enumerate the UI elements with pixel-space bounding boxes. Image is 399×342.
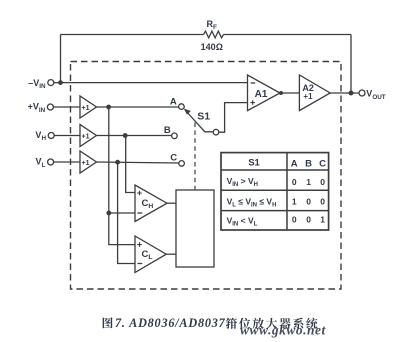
wire U3 output to node C — [97, 162, 179, 163]
junction +VIN branch to CH minus — [106, 211, 111, 216]
node B terminal circle — [172, 133, 178, 139]
wire U1 output to node A — [97, 106, 179, 108]
CH plus sign — [137, 191, 142, 196]
junction feedback/output — [349, 91, 354, 96]
svg-text:0: 0 — [306, 197, 311, 207]
table S1 truth table outer border — [221, 153, 329, 230]
wire VL to buffer U3 — [54, 161, 80, 163]
svg-text:+1: +1 — [82, 105, 90, 112]
svg-text:A: A — [170, 97, 177, 108]
svg-text:+1: +1 — [82, 160, 90, 167]
decode block rectangle — [176, 190, 214, 267]
svg-text:7. AD8036/AD8037: 7. AD8036/AD8037 — [115, 316, 226, 330]
svg-text:140Ω: 140Ω — [201, 42, 223, 52]
junction U3 output — [115, 160, 120, 165]
wire CH output to decode block — [167, 202, 176, 204]
wire +VIN branch vertical to comparators — [109, 107, 135, 245]
wire CL output to decode block — [166, 253, 176, 255]
svg-text:B: B — [305, 159, 312, 170]
switch S1 common circle — [213, 129, 219, 135]
buffer U2 (+1) triangle — [80, 125, 97, 147]
svg-text:0: 0 — [292, 177, 297, 187]
junction -VIN/feedback — [58, 80, 63, 85]
terminal VH circle — [48, 133, 54, 139]
wire S1 common to A1 plus input — [219, 103, 248, 133]
wire VH branch vertical to CH plus input — [126, 136, 135, 193]
op-amp A2 triangle — [299, 75, 330, 111]
resistor RF zigzag — [204, 31, 224, 38]
svg-text:0: 0 — [292, 215, 297, 225]
buffer U3 (+1) triangle — [80, 151, 97, 173]
svg-text:C: C — [170, 153, 177, 164]
wire U2 output to node B — [97, 135, 172, 137]
svg-text:A1: A1 — [255, 89, 268, 100]
svg-text:VIN < VL: VIN < VL — [227, 216, 258, 228]
dashed control line S1 to decode block — [194, 123, 196, 191]
table header divider and row lines — [221, 153, 329, 230]
svg-text:+VIN: +VIN — [28, 102, 46, 114]
svg-text:VIN > VH: VIN > VH — [227, 176, 258, 188]
terminal -VIN circle — [48, 80, 54, 86]
caption CJK glyphs — [103, 317, 318, 329]
CL minus sign — [137, 263, 142, 265]
switch S1 arm with arrowhead — [187, 113, 213, 132]
svg-text:www.gkwo.net: www.gkwo.net — [240, 323, 327, 338]
svg-text:1: 1 — [306, 177, 311, 187]
svg-text:0: 0 — [306, 215, 311, 225]
A1 plus sign — [250, 100, 255, 105]
CL plus sign — [137, 242, 142, 247]
buffer U1 (+1) triangle — [80, 96, 97, 118]
svg-text:VH: VH — [35, 130, 46, 142]
comparator CH triangle — [135, 185, 167, 222]
svg-text:S1: S1 — [248, 157, 260, 168]
terminal VL circle — [48, 159, 54, 165]
op-amp A1 triangle — [248, 75, 281, 111]
svg-text:1: 1 — [292, 197, 297, 207]
node A terminal circle — [179, 104, 185, 110]
wire VL branch vertical to CL minus input — [118, 162, 135, 263]
svg-text:A: A — [291, 159, 298, 170]
svg-text:1: 1 — [320, 215, 325, 225]
wire VH to buffer U2 — [54, 135, 80, 137]
junction U1 output — [106, 105, 111, 110]
svg-text:RF: RF — [207, 19, 218, 31]
wire -VIN to A1 minus input — [54, 82, 248, 84]
node C terminal circle — [179, 161, 185, 167]
wire junction to CH minus input — [109, 212, 135, 214]
svg-text:VL ≤ VIN ≤ VH: VL ≤ VIN ≤ VH — [227, 196, 277, 208]
svg-text:0: 0 — [320, 197, 325, 207]
CH minus sign — [137, 212, 142, 214]
wire +VIN to buffer U1 — [53, 106, 80, 108]
wire feedback top horizontal — [61, 34, 352, 36]
wire A1 output to A2 — [280, 92, 299, 94]
terminal +VIN circle — [47, 104, 53, 110]
svg-text:+1: +1 — [303, 92, 313, 101]
dashed system boundary box — [71, 62, 342, 290]
wire A2 output to VOUT — [330, 92, 359, 94]
svg-text:0: 0 — [320, 177, 325, 187]
terminal VOUT circle — [359, 90, 365, 96]
svg-text:VL: VL — [36, 157, 46, 169]
wire feedback left vertical — [60, 35, 62, 83]
junction U2 output — [123, 133, 128, 138]
svg-text:VOUT: VOUT — [366, 88, 385, 101]
svg-text:C: C — [319, 159, 326, 170]
svg-text:S1: S1 — [197, 111, 210, 123]
A1 minus sign — [251, 82, 256, 84]
comparator CL triangle — [135, 236, 166, 273]
junction A1 output dot — [279, 91, 283, 95]
svg-text:B: B — [164, 125, 171, 136]
svg-text:+1: +1 — [82, 134, 90, 141]
wire feedback right vertical — [350, 35, 352, 94]
svg-text:–VIN: –VIN — [28, 78, 46, 90]
